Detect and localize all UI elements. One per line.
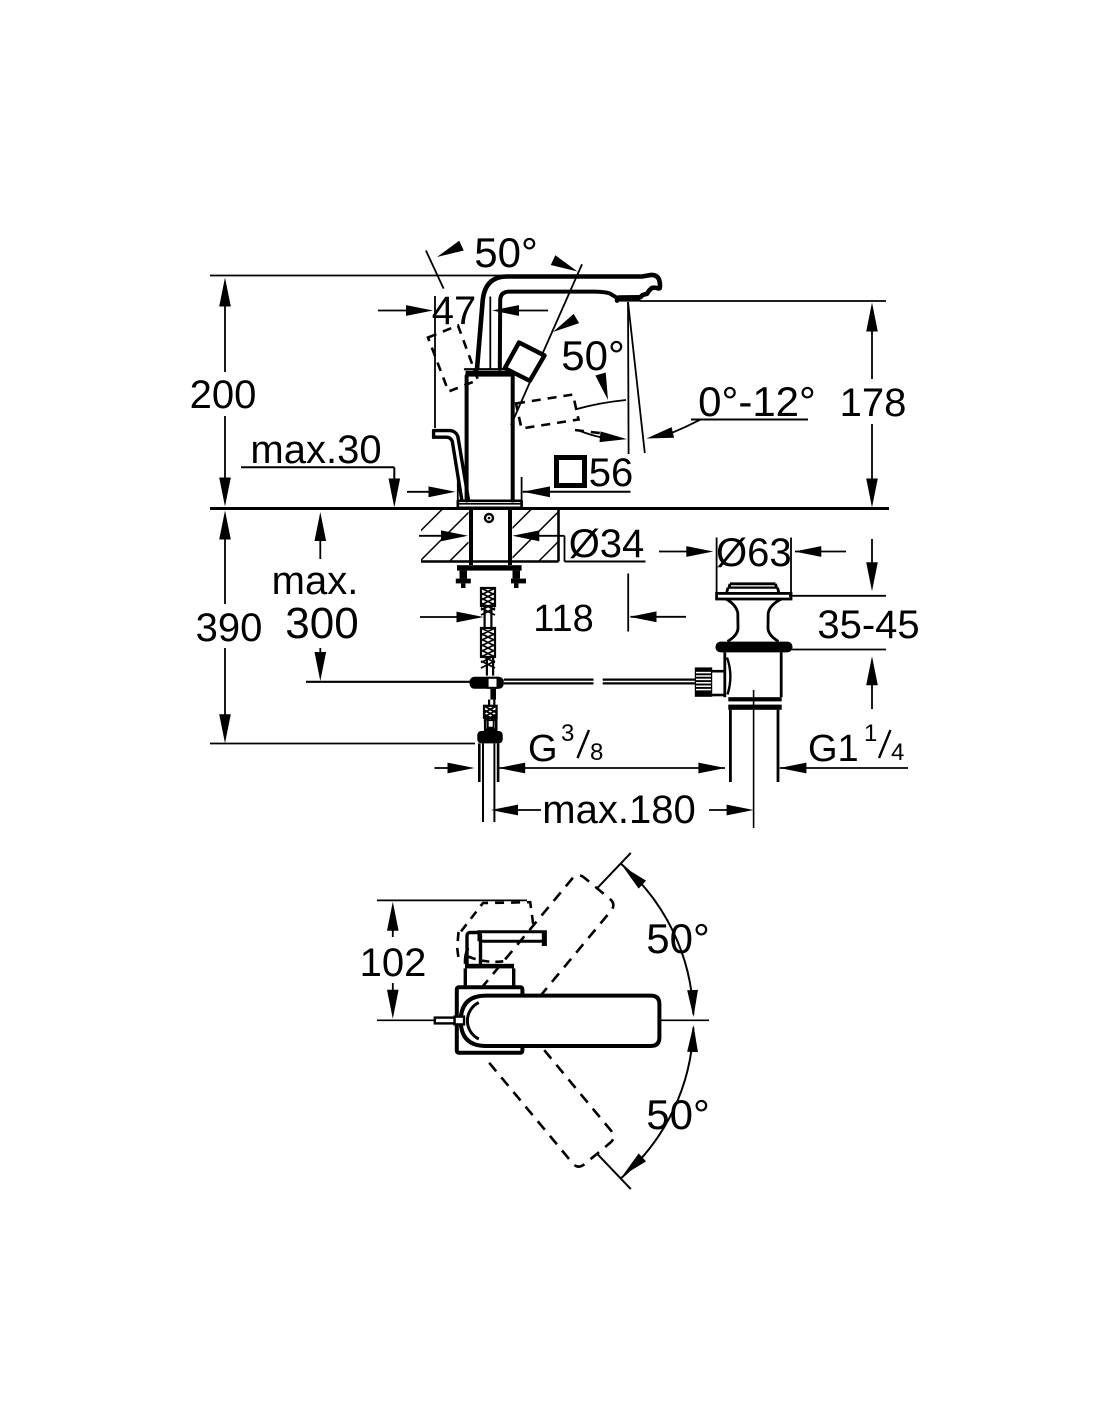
svg-text:0°-12°: 0°-12° xyxy=(698,378,816,425)
svg-text:56: 56 xyxy=(589,451,634,495)
svg-text:max.: max. xyxy=(272,559,359,603)
svg-text:max.180: max.180 xyxy=(542,788,695,832)
svg-text:1: 1 xyxy=(864,720,877,747)
svg-text:35-45: 35-45 xyxy=(817,603,919,647)
svg-text:max.30: max.30 xyxy=(250,428,381,472)
svg-text:200: 200 xyxy=(190,373,257,417)
svg-text:3: 3 xyxy=(561,720,574,747)
svg-text:50°: 50° xyxy=(646,915,710,962)
svg-text:102: 102 xyxy=(360,941,427,985)
svg-text:G: G xyxy=(528,728,558,770)
svg-text:50°: 50° xyxy=(561,332,625,379)
svg-text:8: 8 xyxy=(590,739,603,766)
svg-text:50°: 50° xyxy=(474,229,538,276)
svg-text:300: 300 xyxy=(285,599,358,648)
svg-text:118: 118 xyxy=(533,598,594,640)
svg-text:Ø63: Ø63 xyxy=(716,531,792,575)
svg-text:390: 390 xyxy=(196,606,263,650)
svg-text:4: 4 xyxy=(891,739,904,766)
svg-text:178: 178 xyxy=(840,381,907,425)
svg-text:Ø34: Ø34 xyxy=(569,522,645,566)
svg-text:47: 47 xyxy=(432,289,477,333)
svg-text:G1: G1 xyxy=(808,728,859,770)
